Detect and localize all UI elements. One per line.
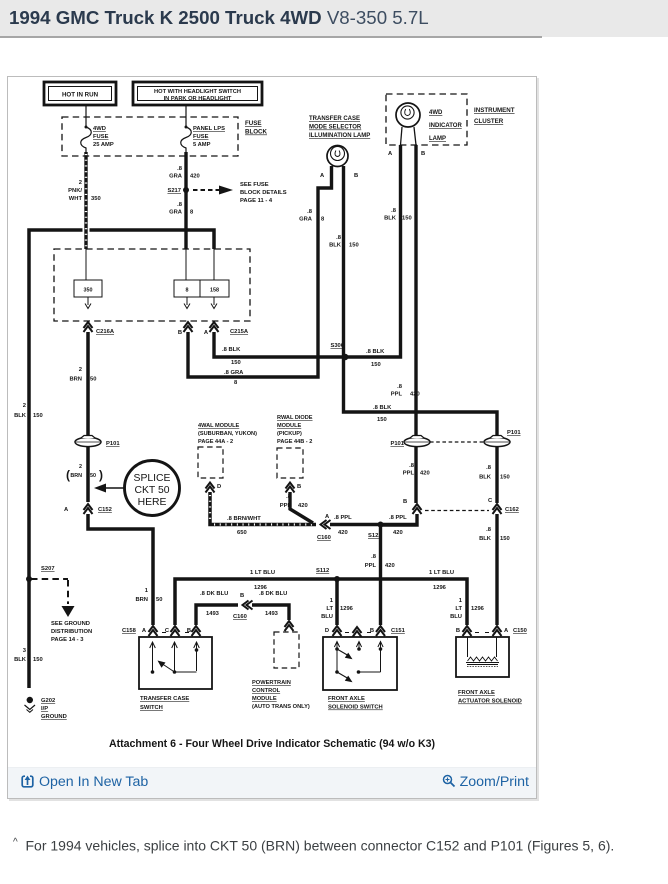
svg-text:C152: C152 [98,507,112,513]
svg-text:1296: 1296 [471,606,485,612]
svg-text:S112: S112 [316,568,329,574]
svg-text:TRANSFER CASE: TRANSFER CASE [140,696,189,702]
svg-text:LT: LT [326,606,333,612]
svg-text:.8: .8 [486,527,492,533]
svg-text:8: 8 [190,210,194,216]
svg-text:PAGE 44A - 2: PAGE 44A - 2 [198,439,233,445]
svg-text:50: 50 [90,377,96,383]
svg-text:C158: C158 [122,628,137,634]
svg-text:GRA: GRA [299,217,313,223]
svg-text:.8: .8 [371,554,377,560]
svg-text:8: 8 [186,288,189,294]
svg-text:BLK: BLK [14,413,27,419]
svg-text:150: 150 [33,657,43,663]
svg-text:.8 DK BLU: .8 DK BLU [200,591,228,597]
svg-text:C162: C162 [505,507,519,513]
svg-text:C150: C150 [513,628,527,634]
svg-text:B: B [297,484,301,490]
svg-text:8: 8 [234,380,238,386]
svg-text:BRN: BRN [135,597,148,603]
svg-text:A: A [204,330,209,336]
svg-text:A: A [325,514,330,520]
svg-text:G202: G202 [41,698,55,704]
svg-text:158: 158 [210,288,219,294]
svg-text:PAGE 44B - 2: PAGE 44B - 2 [277,439,312,445]
svg-text:RWAL DIODE: RWAL DIODE [277,415,313,421]
svg-text:MODULE: MODULE [277,423,302,429]
svg-text:C: C [488,498,493,504]
svg-text:GROUND: GROUND [41,714,67,720]
svg-text:2: 2 [79,367,82,373]
svg-text:PNK/: PNK/ [68,188,82,194]
svg-text:1 LT BLU: 1 LT BLU [429,570,454,576]
svg-text:PAGE 14 - 3: PAGE 14 - 3 [51,637,84,643]
svg-text:FUSE: FUSE [245,120,262,127]
svg-text:BLK: BLK [479,536,492,542]
svg-text:.8 BLK: .8 BLK [222,347,241,353]
svg-text:P101: P101 [507,430,521,436]
svg-text:B: B [354,173,358,179]
svg-text:.8 BLK: .8 BLK [366,349,385,355]
svg-text:FUSE: FUSE [93,134,109,140]
svg-text:B: B [187,628,191,634]
svg-text:HOT WITH HEADLIGHT SWITCH: HOT WITH HEADLIGHT SWITCH [154,89,241,95]
svg-text:1: 1 [459,598,463,604]
svg-text:(PICKUP): (PICKUP) [277,431,302,437]
svg-text:C160: C160 [317,535,331,541]
svg-text:.8: .8 [409,463,415,469]
svg-text:.8: .8 [397,384,403,390]
svg-text:150: 150 [349,243,359,249]
svg-text:420: 420 [190,174,200,180]
svg-text:SWITCH: SWITCH [140,705,163,711]
svg-text:P101: P101 [106,441,120,447]
svg-text:A: A [320,173,325,179]
svg-text:420: 420 [385,563,395,569]
svg-text:4WD: 4WD [93,126,106,132]
svg-text:LT: LT [455,606,462,612]
svg-text:.8: .8 [286,494,292,500]
svg-text:.8 BRN/WHT: .8 BRN/WHT [227,516,261,522]
svg-text:150: 150 [500,475,510,481]
svg-text:INDICATOR: INDICATOR [429,123,462,129]
svg-text:CONTROL: CONTROL [252,688,281,694]
svg-text:TRANSFER CASE: TRANSFER CASE [309,116,360,122]
svg-text:150: 150 [377,417,387,423]
svg-text:ILLUMINATION LAMP: ILLUMINATION LAMP [309,133,370,139]
svg-text:BLK: BLK [14,657,27,663]
svg-text:1 LT BLU: 1 LT BLU [250,570,275,576]
svg-text:350: 350 [84,288,93,294]
svg-text:A: A [504,628,509,634]
svg-text:420: 420 [410,392,420,398]
svg-text:420: 420 [420,471,430,477]
svg-text:PANEL LPS: PANEL LPS [193,126,225,132]
svg-text:.8: .8 [177,166,183,172]
svg-text:2: 2 [79,180,82,186]
svg-text:BRN: BRN [70,473,82,479]
svg-text:(: ( [66,468,70,482]
svg-text:(AUTO TRANS ONLY): (AUTO TRANS ONLY) [252,704,310,710]
svg-text:2: 2 [23,403,26,409]
svg-text:BLK: BLK [479,475,492,481]
svg-text:1296: 1296 [433,585,447,591]
svg-text:5 AMP: 5 AMP [193,142,211,148]
svg-text:1493: 1493 [265,611,279,617]
svg-text:.8 BLK: .8 BLK [373,405,392,411]
svg-text:BLOCK DETAILS: BLOCK DETAILS [240,190,287,196]
svg-text:4WAL MODULE: 4WAL MODULE [198,423,239,429]
svg-text:S207: S207 [41,566,55,572]
svg-text:1493: 1493 [206,611,220,617]
svg-text:8: 8 [321,217,325,223]
svg-text:C151: C151 [391,628,406,634]
svg-text:B: B [421,151,425,157]
svg-text:FUSE: FUSE [193,134,209,140]
svg-text:BLU: BLU [450,614,462,620]
svg-text:I/P: I/P [41,706,48,712]
svg-text:DISTRIBUTION: DISTRIBUTION [51,629,92,635]
svg-text:Attachment 6 - Four Wheel Driv: Attachment 6 - Four Wheel Drive Indicato… [109,738,435,750]
svg-text:150: 150 [402,216,412,222]
svg-text:FRONT AXLE: FRONT AXLE [328,696,365,702]
svg-text:A: A [388,151,393,157]
svg-text:50: 50 [156,597,162,603]
svg-text:A: A [142,628,147,634]
svg-text:.8 PPL: .8 PPL [389,515,407,521]
svg-text:B: B [403,499,407,505]
svg-text:B: B [370,628,374,634]
svg-text:): ) [99,468,103,482]
svg-text:PPL: PPL [391,392,403,398]
svg-text:FRONT AXLE: FRONT AXLE [458,690,495,696]
svg-text:PPL: PPL [365,563,377,569]
svg-text:.8: .8 [336,235,342,241]
svg-text:.8 GRA: .8 GRA [224,370,244,376]
svg-text:1: 1 [145,588,149,594]
svg-text:420: 420 [298,503,308,509]
svg-text:B: B [240,593,244,599]
svg-text:P101: P101 [390,441,404,447]
svg-text:LAMP: LAMP [429,136,446,142]
svg-text:BLOCK: BLOCK [245,129,268,136]
svg-text:BLK: BLK [384,216,397,222]
svg-text:150: 150 [231,360,241,366]
svg-text:B: B [178,330,182,336]
svg-text:C: C [165,628,170,634]
svg-text:HOT IN RUN: HOT IN RUN [62,92,99,99]
svg-text:.8: .8 [307,209,313,215]
svg-text:CKT 50: CKT 50 [134,485,169,496]
svg-text:B: B [456,628,460,634]
svg-text:PPL: PPL [280,503,292,509]
svg-text:SEE GROUND: SEE GROUND [51,621,90,627]
svg-text:BLU: BLU [321,614,333,620]
svg-text:.8: .8 [486,465,492,471]
svg-text:.8 DK BLU: .8 DK BLU [259,591,287,597]
svg-text:1296: 1296 [340,606,354,612]
svg-text:INSTRUMENT: INSTRUMENT [474,107,515,114]
svg-text:50: 50 [90,473,96,479]
svg-text:420: 420 [393,530,403,536]
svg-text:150: 150 [371,362,381,368]
svg-text:.8: .8 [391,208,397,214]
svg-text:3: 3 [23,648,27,654]
svg-text:650: 650 [237,530,247,536]
svg-text:420: 420 [338,530,348,536]
svg-text:IN PARK OR HEADLIGHT: IN PARK OR HEADLIGHT [164,96,232,102]
svg-text:MODE SELECTOR: MODE SELECTOR [309,125,362,131]
svg-text:150: 150 [500,536,510,542]
svg-text:POWERTRAIN: POWERTRAIN [252,680,291,686]
svg-text:S217: S217 [167,188,181,194]
svg-text:2: 2 [79,464,82,470]
svg-text:350: 350 [91,196,101,202]
svg-text:MODULE: MODULE [252,696,277,702]
svg-text:GRA: GRA [169,174,183,180]
svg-text:GRA: GRA [169,210,183,216]
svg-text:SOLENOID SWITCH: SOLENOID SWITCH [328,705,383,711]
svg-text:D: D [217,484,221,490]
svg-text:C216A: C216A [96,329,115,335]
svg-text:D: D [325,628,329,634]
svg-text:4WD: 4WD [429,110,443,116]
svg-text:CLUSTER: CLUSTER [474,118,504,125]
svg-text:.8: .8 [177,202,183,208]
svg-text:150: 150 [33,413,43,419]
svg-text:C215A: C215A [230,329,249,335]
svg-text:SPLICE: SPLICE [134,473,171,484]
svg-text:C160: C160 [233,614,247,620]
svg-text:ACTUATOR SOLENOID: ACTUATOR SOLENOID [458,699,522,705]
svg-text:SEE FUSE: SEE FUSE [240,182,269,188]
svg-text:(SUBURBAN, YUKON): (SUBURBAN, YUKON) [198,431,257,437]
svg-text:PPL: PPL [403,471,415,477]
svg-text:A: A [64,507,69,513]
svg-text:BLK: BLK [329,243,342,249]
svg-text:.8 PPL: .8 PPL [334,515,352,521]
svg-text:BRN: BRN [69,377,82,383]
svg-text:PAGE 11 - 4: PAGE 11 - 4 [240,198,273,204]
svg-text:1: 1 [330,598,334,604]
svg-text:HERE: HERE [138,497,167,508]
svg-text:25 AMP: 25 AMP [93,142,114,148]
svg-text:WHT: WHT [69,196,83,202]
